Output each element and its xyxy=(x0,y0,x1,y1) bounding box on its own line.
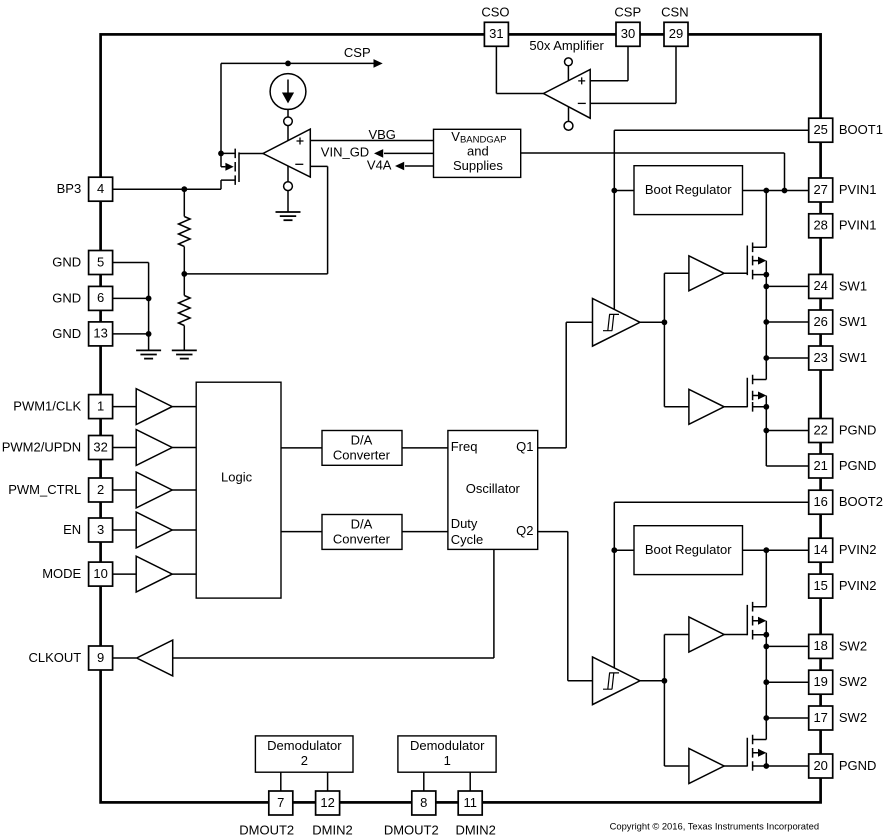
svg-text:5: 5 xyxy=(97,254,104,269)
svg-text:14: 14 xyxy=(813,542,827,557)
wire Logic to D/A 2 xyxy=(281,531,322,533)
wire Demodulator 1 to pin 8 xyxy=(423,772,425,791)
junction CSP/current-source xyxy=(285,61,291,67)
wire feedback to U1 inverting input xyxy=(184,166,327,274)
wire M1H drain rail xyxy=(765,191,767,248)
svg-text:32: 32 xyxy=(93,439,107,454)
wire D/A 2 to Duty Cycle xyxy=(402,531,448,533)
svg-text:Supplies: Supplies xyxy=(453,158,503,173)
pin 26 SW1 xyxy=(809,310,833,334)
pin 20 PGND xyxy=(809,754,833,778)
svg-text:EN: EN xyxy=(63,522,81,537)
svg-text:18: 18 xyxy=(813,638,827,653)
wire buffer PWM2/UPDN to Logic xyxy=(172,447,196,449)
wire SW2 to pin 17 xyxy=(766,717,808,719)
svg-text:SW2: SW2 xyxy=(839,674,867,689)
wire GND pin 13 stub xyxy=(113,333,149,335)
svg-text:Logic: Logic xyxy=(221,469,253,484)
schmitt S2 hysteresis glyph xyxy=(603,673,619,689)
wire SW1 to pin 26 xyxy=(766,321,808,323)
svg-text:Boot Regulator: Boot Regulator xyxy=(645,542,732,557)
wire boot regulator 1 input stub xyxy=(614,190,634,192)
wire PGND to pin 22 xyxy=(766,430,808,432)
svg-text:27: 27 xyxy=(813,182,827,197)
pin 7 DMOUT2 xyxy=(269,791,293,815)
op-amp U1 (gate driver amp) xyxy=(263,129,310,177)
svg-text:Copyright © 2016, Texas Instru: Copyright © 2016, Texas Instruments Inco… xyxy=(610,820,819,831)
wire GND pin 5 to ground rail xyxy=(113,263,149,351)
svg-text:GND: GND xyxy=(52,254,81,269)
svg-text:1: 1 xyxy=(444,753,451,768)
wire boot regulator 2 input stub xyxy=(614,549,634,551)
svg-text:7: 7 xyxy=(277,795,284,810)
wire pin to buffer MODE xyxy=(113,573,137,575)
wire CLKOUT buffer input from oscillator xyxy=(173,549,494,658)
block D/A Converter 2 xyxy=(322,515,402,550)
wire driver A2 to M1L gate xyxy=(724,406,747,408)
svg-text:10: 10 xyxy=(93,566,107,581)
pin 32 PWM2/UPDN xyxy=(89,436,113,460)
svg-text:13: 13 xyxy=(93,326,107,341)
junction M1H source/SW1 rail xyxy=(763,272,769,278)
wire opamp bottom edge to bubble xyxy=(287,166,289,182)
wire bubble to ground xyxy=(287,191,289,212)
wire R2 top lead xyxy=(183,274,185,296)
junction S1 output node xyxy=(662,319,668,325)
transistor M2H (high-side FET 2) body arrow xyxy=(758,617,766,625)
svg-text:BOOT2: BOOT2 xyxy=(839,494,883,509)
wire R1 top lead xyxy=(183,189,185,216)
svg-text:DMIN2: DMIN2 xyxy=(455,823,495,838)
pin 11 DMIN2 xyxy=(458,791,482,815)
block Demodulator 2 xyxy=(255,736,353,772)
wire S1 output xyxy=(640,321,664,323)
svg-text:22: 22 xyxy=(813,422,827,437)
pin 15 PVIN2 xyxy=(809,574,833,598)
junction M2H source/SW2 rail xyxy=(763,632,769,638)
pin 3 EN xyxy=(89,518,113,542)
pin 21 PGND xyxy=(809,454,833,478)
junction PGND pin22 xyxy=(763,428,769,434)
svg-text:and: and xyxy=(467,143,489,158)
junction R1/R2/feedback xyxy=(181,271,187,277)
transistor M1L (low-side FET 1) xyxy=(747,375,766,412)
driver A1 (high-side 1) xyxy=(689,256,724,291)
svg-text:D/A: D/A xyxy=(351,516,373,531)
svg-text:CSP: CSP xyxy=(344,45,371,60)
svg-text:21: 21 xyxy=(813,458,827,473)
pin 25 BOOT1 xyxy=(809,118,833,142)
svg-text:SW1: SW1 xyxy=(839,314,867,329)
transistor Q1 body arrow xyxy=(225,163,233,171)
junction SW1 pin23 xyxy=(763,355,769,361)
pin 23 SW1 xyxy=(809,346,833,370)
svg-text:SW2: SW2 xyxy=(839,638,867,653)
junction Q1 drain/body xyxy=(218,151,224,157)
svg-text:2: 2 xyxy=(301,753,308,768)
wire VIN_GD net xyxy=(384,152,434,154)
svg-text:GND: GND xyxy=(52,290,81,305)
svg-text:26: 26 xyxy=(813,314,827,329)
svg-text:PWM1/CLK: PWM1/CLK xyxy=(13,399,81,414)
block Demodulator 1 xyxy=(398,736,496,772)
wire bubble to opamp top edge xyxy=(287,126,289,141)
wire pin to buffer PWM2/UPDN xyxy=(113,447,137,449)
pin 16 BOOT2 xyxy=(809,490,833,514)
svg-text:CSO: CSO xyxy=(481,4,509,19)
wire M2H drain rail xyxy=(765,550,767,607)
block VBANDGAP and Supplies xyxy=(434,129,521,178)
svg-text:8: 8 xyxy=(420,795,427,810)
junction SW1 pin24 xyxy=(763,284,769,290)
wire buffer MODE to Logic xyxy=(172,573,196,575)
svg-text:Duty: Duty xyxy=(451,516,478,531)
wire BOOT1 net xyxy=(614,130,808,309)
svg-text:SW1: SW1 xyxy=(839,278,867,293)
wire to driver A2 input xyxy=(664,406,689,408)
svg-text:V4A: V4A xyxy=(367,157,392,172)
svg-text:23: 23 xyxy=(813,350,827,365)
wire R1 bottom lead xyxy=(183,247,185,274)
wire U2 top supply stub xyxy=(567,66,569,81)
wire buffer PWM_CTRL to Logic xyxy=(172,489,196,491)
svg-text:Oscillator: Oscillator xyxy=(466,481,521,496)
schmitt S1 hysteresis glyph xyxy=(603,314,619,330)
svg-text:25: 25 xyxy=(813,122,827,137)
wire Demodulator 2 to pin 12 xyxy=(327,772,329,791)
wire CSP output net xyxy=(221,62,374,64)
schmitt trigger S2 xyxy=(593,657,641,705)
wire S1 output rail to drivers xyxy=(663,273,665,407)
wire VBG net xyxy=(310,140,433,142)
pin 2 PWM_CTRL xyxy=(89,478,113,502)
ground symbol below op-amp U1 xyxy=(276,212,301,220)
buffer PWM2/UPDN xyxy=(136,430,172,466)
terminal bubble opamp bottom supply xyxy=(284,182,293,191)
pin 24 SW1 xyxy=(809,274,833,298)
junction PVIN1/M1H drain xyxy=(763,188,769,194)
pin 10 MODE xyxy=(89,562,113,586)
svg-text:DMOUT2: DMOUT2 xyxy=(384,823,439,838)
svg-text:20: 20 xyxy=(813,758,827,773)
transistor M1L (low-side FET 1) body arrow xyxy=(758,392,766,400)
svg-text:6: 6 xyxy=(97,290,104,305)
wire drain vertical to CSP xyxy=(220,63,222,153)
svg-text:2: 2 xyxy=(97,482,104,497)
arrowhead V4A xyxy=(395,162,404,171)
svg-text:PVIN2: PVIN2 xyxy=(839,542,877,557)
junction BOOT2/boot-regulator-2 input xyxy=(611,547,617,553)
svg-text:Demodulator: Demodulator xyxy=(267,738,342,753)
op-amp U2 50x current sense amplifier xyxy=(544,70,591,119)
wire SW1 to pin 23 xyxy=(766,357,808,359)
resistor R2 xyxy=(179,296,191,326)
svg-text:11: 11 xyxy=(463,795,477,810)
svg-text:Q2: Q2 xyxy=(516,523,533,538)
junction BOOT1/boot-regulator-1 input xyxy=(611,188,617,194)
junction GND13 rail xyxy=(146,331,152,337)
svg-text:17: 17 xyxy=(813,710,827,725)
block Oscillator xyxy=(448,431,538,550)
wire S2 output xyxy=(640,680,664,682)
svg-text:24: 24 xyxy=(813,278,827,293)
wire BP3 to Q1 source xyxy=(113,188,221,190)
wire GND pin 6 stub xyxy=(113,297,149,299)
ground symbol below R2 xyxy=(172,350,197,358)
svg-text:PGND: PGND xyxy=(839,422,877,437)
svg-text:19: 19 xyxy=(813,674,827,689)
junction M2L source/PGND pin 20 xyxy=(763,763,769,769)
wire Demodulator 1 to pin 11 xyxy=(469,772,471,791)
svg-text:CSP: CSP xyxy=(614,4,641,19)
svg-text:12: 12 xyxy=(320,795,334,810)
pin 13 GND xyxy=(89,322,113,346)
svg-text:SW1: SW1 xyxy=(839,350,867,365)
wire SW1 to pin 24 xyxy=(766,285,808,287)
buffer EN xyxy=(136,512,172,548)
pin 5 GND xyxy=(89,251,113,275)
svg-text:PVIN1: PVIN1 xyxy=(839,218,877,233)
wire pin to buffer PWM_CTRL xyxy=(113,489,137,491)
wire Demodulator 2 to pin 7 xyxy=(280,772,282,791)
wire SW2 to pin 18 xyxy=(766,645,808,647)
driver A3 (high-side 2) xyxy=(689,617,724,652)
svg-text:PVIN2: PVIN2 xyxy=(839,578,877,593)
wire pin to buffer EN xyxy=(113,529,137,531)
svg-text:PVIN1: PVIN1 xyxy=(839,182,877,197)
pin 31 CSO xyxy=(484,22,508,46)
svg-text:CSN: CSN xyxy=(661,4,688,19)
buffer CLKOUT (points left) xyxy=(137,640,173,676)
wire driver A4 to M2L gate xyxy=(724,765,747,767)
junction bandgap/PVIN1 wire xyxy=(782,188,788,194)
pin 18 SW2 xyxy=(809,634,833,658)
schmitt trigger S1 xyxy=(593,299,641,347)
arrowhead CSP xyxy=(374,59,383,68)
svg-text:31: 31 xyxy=(489,26,503,41)
wire S2 output rail to drivers xyxy=(663,635,665,767)
svg-text:Freq: Freq xyxy=(451,439,478,454)
junction SW2 pin19 xyxy=(763,679,769,685)
buffer PWM_CTRL xyxy=(136,472,172,508)
pin 9 CLKOUT xyxy=(89,646,113,670)
wire U2 bottom supply stub xyxy=(568,107,570,122)
svg-text:4: 4 xyxy=(97,181,104,196)
wire SW2 rail xyxy=(765,635,767,740)
block Boot Regulator 2 xyxy=(634,526,743,575)
wire U2 output to pin 31 CSO xyxy=(496,46,543,93)
terminal bubble opamp top supply xyxy=(284,117,293,126)
wire driver A3 to M2H gate xyxy=(724,634,747,636)
ground symbol GND pins xyxy=(136,350,161,358)
svg-text:Boot Regulator: Boot Regulator xyxy=(645,182,732,197)
svg-text:29: 29 xyxy=(669,26,683,41)
pin 29 CSN xyxy=(664,22,688,46)
svg-text:MODE: MODE xyxy=(42,566,81,581)
wire PVIN1 net xyxy=(743,190,809,192)
wire PVIN2 net xyxy=(743,549,809,551)
svg-text:16: 16 xyxy=(813,494,827,509)
wire pin 30 CSP to U2 + input xyxy=(590,46,628,81)
svg-text:D/A: D/A xyxy=(351,432,373,447)
wire to driver A1 input xyxy=(664,272,689,274)
pin 6 GND xyxy=(89,286,113,310)
wire to driver A3 input xyxy=(664,634,689,636)
svg-text:GND: GND xyxy=(52,326,81,341)
transistor M1H (high-side FET 1) body arrow xyxy=(758,257,766,265)
pin 1 PWM1/CLK xyxy=(89,395,113,419)
svg-text:Converter: Converter xyxy=(333,532,391,547)
svg-text:50x Amplifier: 50x Amplifier xyxy=(529,38,604,53)
chip outline border xyxy=(101,34,821,802)
svg-text:Q1: Q1 xyxy=(516,439,533,454)
pin 30 CSP xyxy=(616,22,640,46)
transistor M1H (high-side FET 1) xyxy=(747,243,766,280)
svg-text:PGND: PGND xyxy=(839,458,877,473)
driver A4 (low-side 2) xyxy=(689,749,724,784)
transistor M2H (high-side FET 2) xyxy=(747,602,766,640)
svg-text:3: 3 xyxy=(97,522,104,537)
svg-text:BOOT1: BOOT1 xyxy=(839,122,883,137)
svg-text:VIN_GD: VIN_GD xyxy=(321,145,369,160)
terminal bubble U2 top supply xyxy=(565,58,573,66)
wire pin to buffer PWM1/CLK xyxy=(113,406,137,408)
svg-text:CLKOUT: CLKOUT xyxy=(28,650,81,665)
svg-text:Converter: Converter xyxy=(333,448,391,463)
wire buffer PWM1/CLK to Logic xyxy=(172,406,196,408)
pin 28 PVIN1 xyxy=(809,214,833,238)
svg-text:15: 15 xyxy=(813,578,827,593)
transistor M2L (low-side FET 2) xyxy=(747,735,766,771)
wire D/A 1 to Freq xyxy=(402,447,448,449)
block D/A Converter 1 xyxy=(322,431,402,466)
pin 8 DMOUT2 xyxy=(412,791,436,815)
wire Q1 to S1 input xyxy=(538,322,593,448)
svg-text:9: 9 xyxy=(97,650,104,665)
pin 19 SW2 xyxy=(809,670,833,694)
svg-text:1: 1 xyxy=(97,398,104,413)
wire BOOT2 net xyxy=(614,502,808,668)
transistor M2L (low-side FET 2) body arrow xyxy=(758,749,766,757)
wire Logic to D/A 1 xyxy=(281,447,322,449)
junction SW1 pin26 xyxy=(763,319,769,325)
terminal bubble U2 bottom supply xyxy=(564,121,573,130)
buffer MODE xyxy=(136,556,172,592)
svg-text:28: 28 xyxy=(813,218,827,233)
junction SW2 pin17 xyxy=(763,715,769,721)
svg-text:PWM2/UPDN: PWM2/UPDN xyxy=(2,439,81,454)
wire driver A1 to M1H gate xyxy=(724,272,747,274)
wire SW2 to pin 19 xyxy=(766,681,808,683)
wire PGND1 rail xyxy=(766,407,808,466)
driver A2 (low-side 1) xyxy=(689,389,724,424)
buffer PWM1/CLK xyxy=(136,389,172,425)
svg-text:PGND: PGND xyxy=(839,758,877,773)
pin 22 PGND xyxy=(809,419,833,443)
svg-text:30: 30 xyxy=(621,26,635,41)
pin 17 SW2 xyxy=(809,706,833,730)
svg-text:BP3: BP3 xyxy=(57,181,82,196)
wire Q2 to S2 input xyxy=(538,532,593,681)
pin 27 PVIN1 xyxy=(809,178,833,202)
junction PVIN2/M2H drain xyxy=(763,547,769,553)
wire pin 9 to CLKOUT buffer xyxy=(113,657,137,659)
svg-text:VBG: VBG xyxy=(368,127,395,142)
pin 12 DMIN2 xyxy=(316,791,340,815)
svg-text:DMOUT2: DMOUT2 xyxy=(239,823,294,838)
svg-text:PWM_CTRL: PWM_CTRL xyxy=(8,482,81,497)
junction GND6 rail xyxy=(146,296,152,302)
wire current source to opamp supply bubble xyxy=(287,109,289,117)
pin 4 BP3 xyxy=(89,177,113,201)
wire V4A net xyxy=(405,165,434,167)
svg-text:Cycle: Cycle xyxy=(451,532,484,547)
block Boot Regulator 1 xyxy=(634,166,743,215)
pin 14 PVIN2 xyxy=(809,538,833,562)
wire R2 bottom lead xyxy=(183,326,185,351)
wire pin 29 CSN to U2 - input xyxy=(590,46,676,103)
arrowhead VIN_GD xyxy=(374,149,383,158)
current source I1 xyxy=(270,74,306,110)
wire to driver A4 input xyxy=(664,765,689,767)
wire buffer EN to Logic xyxy=(172,529,196,531)
svg-text:SW2: SW2 xyxy=(839,710,867,725)
svg-text:DMIN2: DMIN2 xyxy=(312,823,352,838)
transistor Q1 (pass FET, mirrored NMOS) xyxy=(221,149,239,190)
wire bandgap supply to PVIN1 net xyxy=(521,153,785,191)
junction M1L source/PGND rail xyxy=(763,404,769,410)
junction BP3/R1 xyxy=(181,186,187,192)
svg-text:Demodulator: Demodulator xyxy=(410,738,485,753)
junction SW2 pin18 xyxy=(763,644,769,650)
wire SW1 rail xyxy=(765,275,767,380)
wire M2L source to pin 20 xyxy=(766,765,808,767)
block Logic xyxy=(196,382,281,598)
resistor R1 xyxy=(179,217,191,247)
junction S2 output node xyxy=(662,678,668,684)
wire U1 gate drive to Q1 gate xyxy=(239,153,263,155)
